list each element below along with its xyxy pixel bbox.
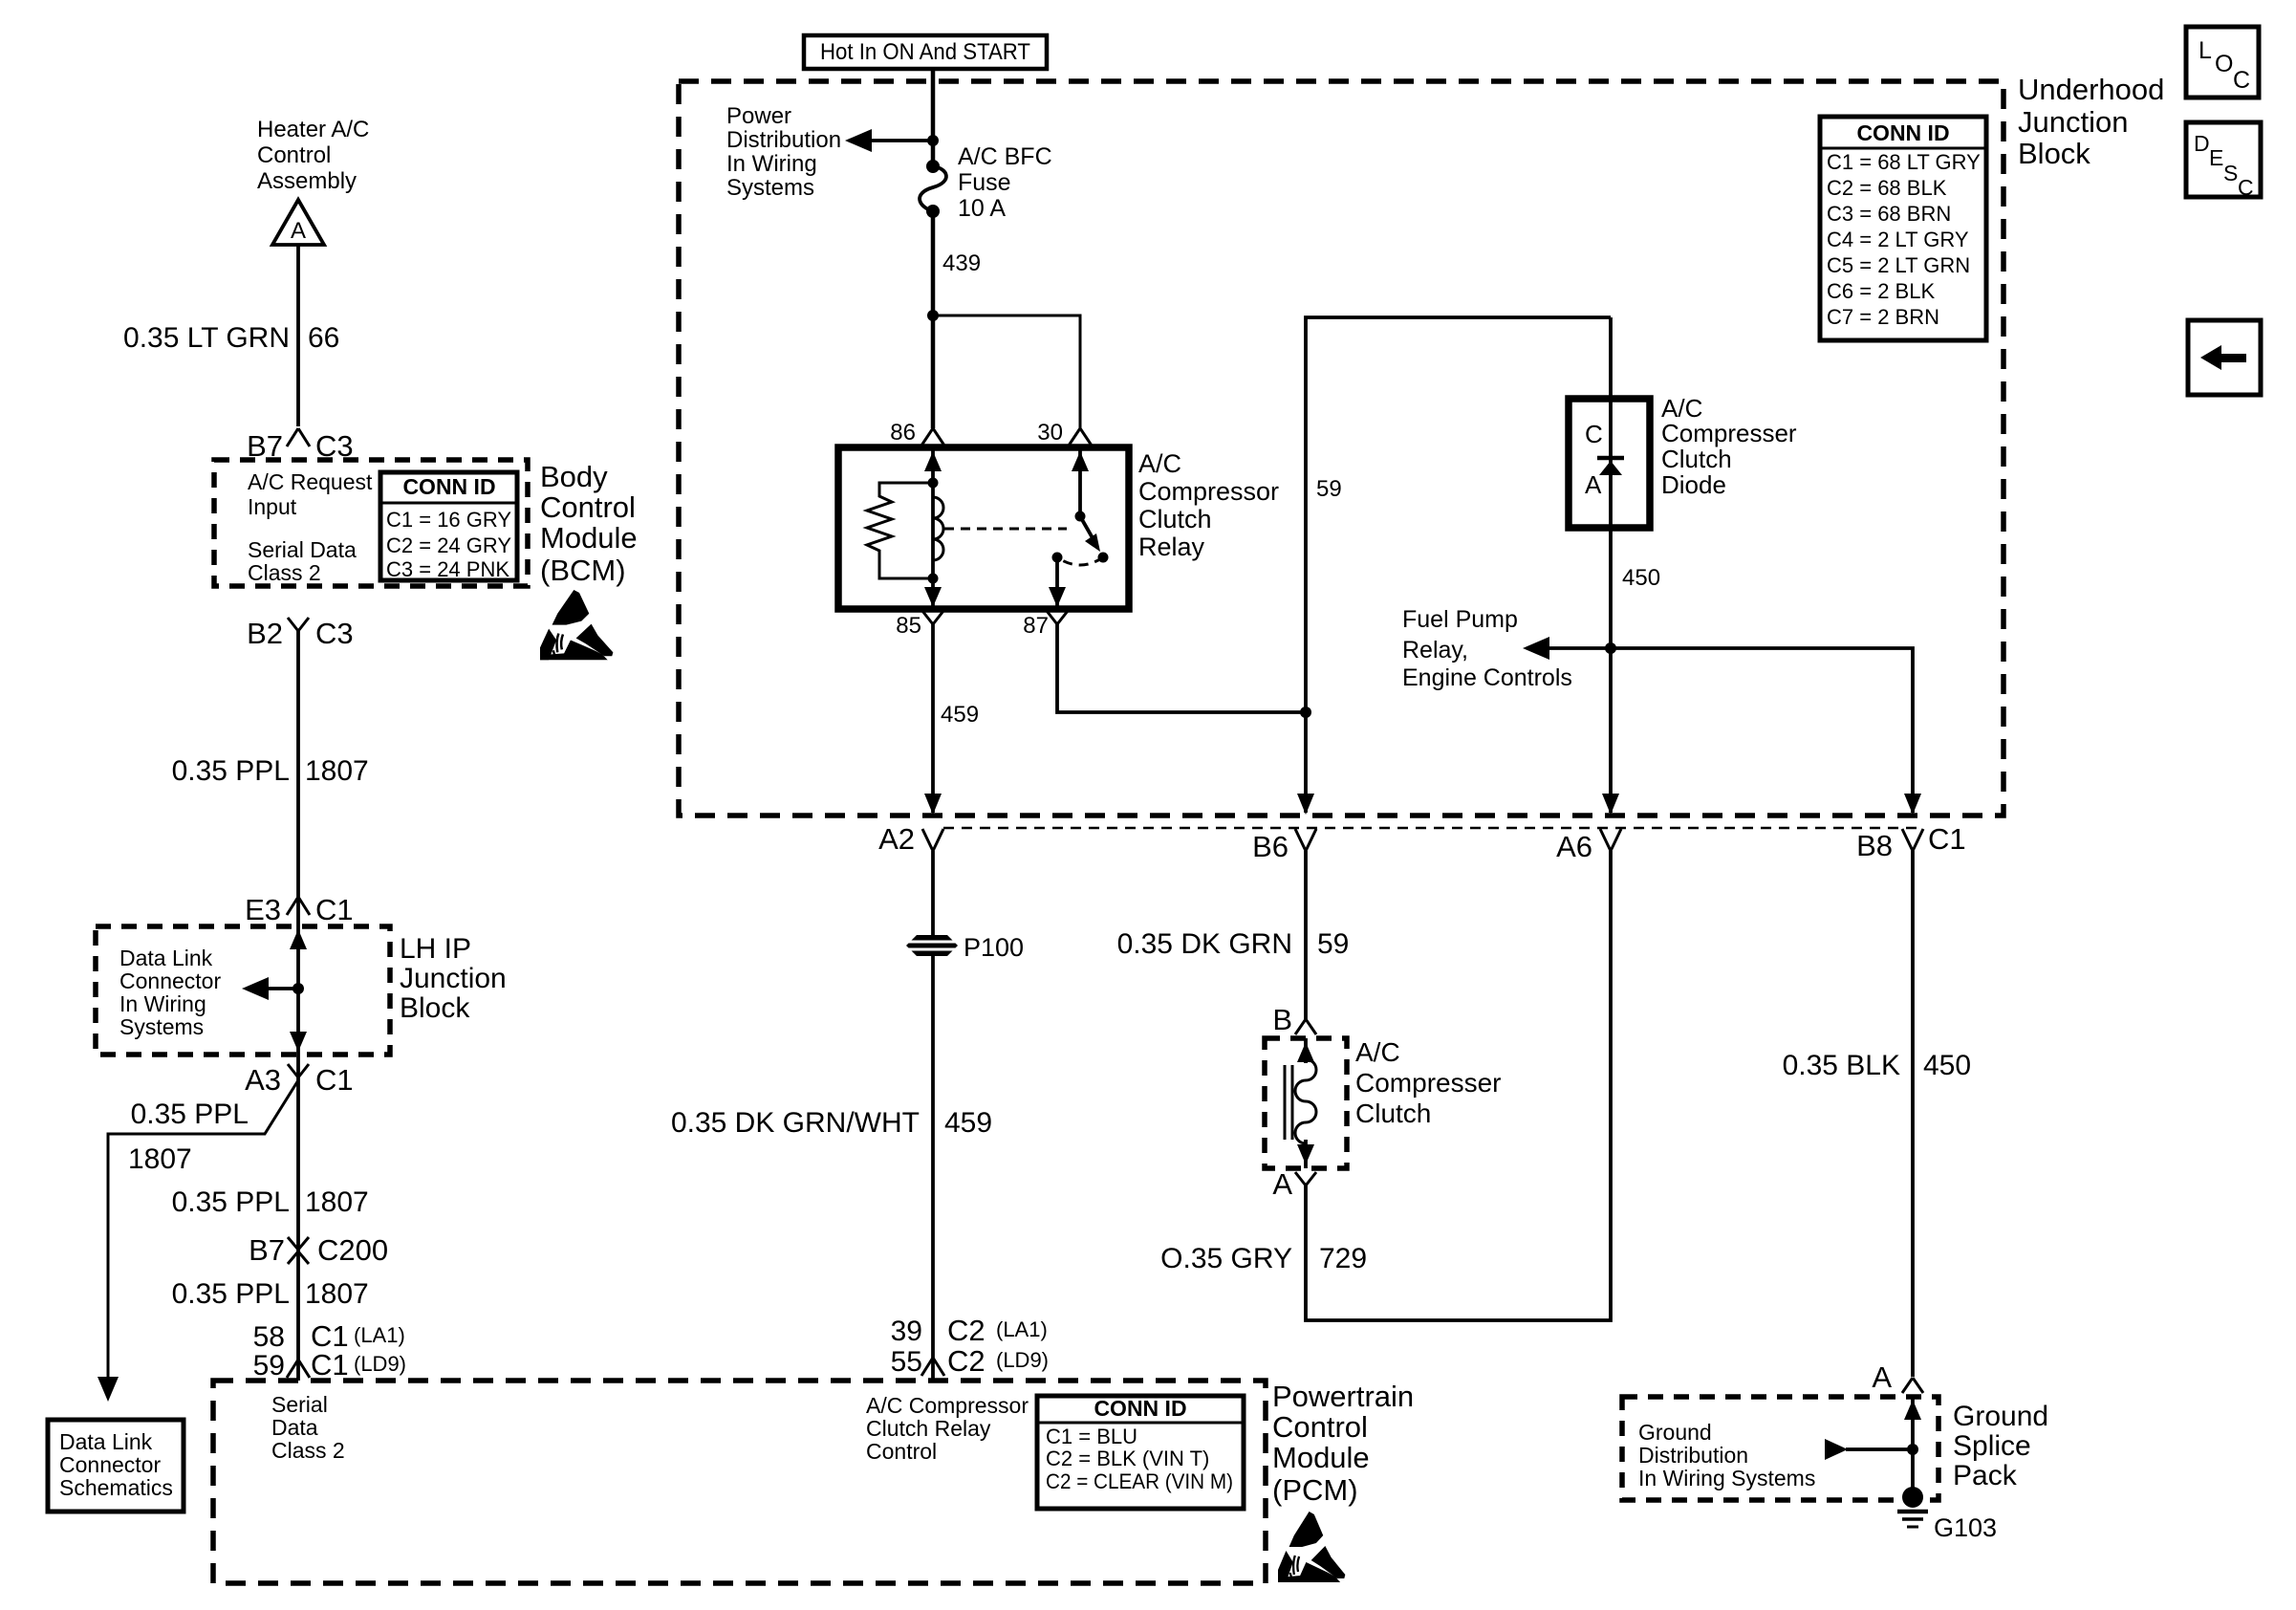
svg-text:0.35 DK GRN: 0.35 DK GRN bbox=[1117, 928, 1292, 960]
svg-text:Clutch: Clutch bbox=[1138, 505, 1212, 533]
svg-text:(PCM): (PCM) bbox=[1272, 1473, 1358, 1507]
svg-text:0.35 PPL: 0.35 PPL bbox=[172, 1278, 290, 1310]
svg-text:Systems: Systems bbox=[119, 1014, 204, 1039]
svg-text:A/C Request: A/C Request bbox=[248, 469, 373, 494]
svg-text:CONN ID: CONN ID bbox=[402, 474, 495, 499]
svg-text:Assembly: Assembly bbox=[257, 168, 357, 194]
svg-text:Clutch: Clutch bbox=[1661, 445, 1732, 473]
svg-text:C3 = 24 PNK: C3 = 24 PNK bbox=[386, 557, 509, 581]
svg-text:B7: B7 bbox=[249, 1233, 285, 1267]
svg-text:Compresser: Compresser bbox=[1661, 419, 1797, 447]
svg-text:Junction: Junction bbox=[400, 963, 507, 994]
svg-text:In Wiring: In Wiring bbox=[119, 991, 206, 1016]
svg-text:C: C bbox=[1585, 420, 1603, 448]
svg-text:Power: Power bbox=[726, 103, 791, 129]
svg-text:C3 = 68 BRN: C3 = 68 BRN bbox=[1827, 202, 1951, 226]
svg-text:Serial Data: Serial Data bbox=[248, 537, 357, 562]
svg-text:E: E bbox=[2209, 145, 2223, 170]
svg-text:A: A bbox=[291, 218, 306, 244]
svg-text:450: 450 bbox=[1923, 1050, 1971, 1081]
svg-text:A: A bbox=[1585, 470, 1602, 499]
svg-text:In Wiring: In Wiring bbox=[726, 151, 817, 177]
svg-text:C6 = 2 BLK: C6 = 2 BLK bbox=[1827, 279, 1935, 303]
svg-text:C2: C2 bbox=[947, 1344, 986, 1378]
svg-text:Class 2: Class 2 bbox=[271, 1438, 345, 1463]
svg-text:G103: G103 bbox=[1934, 1513, 1997, 1542]
svg-text:A/C Compressor: A/C Compressor bbox=[866, 1393, 1029, 1418]
svg-text:Data: Data bbox=[271, 1415, 318, 1440]
svg-text:C2 = BLK (VIN T): C2 = BLK (VIN T) bbox=[1046, 1447, 1209, 1470]
svg-text:1807: 1807 bbox=[305, 1278, 369, 1310]
svg-text:B: B bbox=[1272, 1003, 1292, 1036]
svg-text:C1: C1 bbox=[315, 1063, 354, 1097]
svg-text:Input: Input bbox=[248, 494, 297, 519]
svg-text:(LD9): (LD9) bbox=[354, 1352, 406, 1376]
svg-text:D: D bbox=[2194, 131, 2210, 156]
svg-text:86: 86 bbox=[890, 420, 916, 446]
svg-text:Relay: Relay bbox=[1138, 533, 1205, 561]
svg-text:O.35 GRY: O.35 GRY bbox=[1160, 1243, 1292, 1274]
svg-text:A/C: A/C bbox=[1355, 1037, 1400, 1067]
svg-text:C1 = 68 LT GRY: C1 = 68 LT GRY bbox=[1827, 150, 1981, 174]
svg-text:C: C bbox=[2233, 67, 2250, 94]
svg-text:Relay,: Relay, bbox=[1402, 637, 1468, 664]
svg-text:450: 450 bbox=[1622, 565, 1660, 591]
svg-text:Distribution: Distribution bbox=[1638, 1443, 1748, 1468]
svg-text:Control: Control bbox=[1272, 1410, 1368, 1444]
svg-text:A3: A3 bbox=[245, 1063, 281, 1097]
svg-text:L: L bbox=[2199, 37, 2212, 64]
svg-text:Clutch Relay: Clutch Relay bbox=[866, 1416, 991, 1441]
svg-text:B8: B8 bbox=[1856, 829, 1893, 862]
svg-text:CONN ID: CONN ID bbox=[1094, 1396, 1186, 1421]
svg-text:Systems: Systems bbox=[726, 175, 814, 201]
svg-text:Schematics: Schematics bbox=[59, 1475, 173, 1500]
svg-text:Class 2: Class 2 bbox=[248, 560, 321, 585]
svg-text:Module: Module bbox=[540, 521, 638, 555]
svg-text:Fuel Pump: Fuel Pump bbox=[1402, 606, 1518, 633]
svg-text:66: 66 bbox=[308, 322, 339, 354]
svg-text:39: 39 bbox=[891, 1316, 922, 1347]
svg-text:729: 729 bbox=[1319, 1243, 1367, 1274]
svg-text:O: O bbox=[2215, 51, 2233, 77]
svg-text:Underhood: Underhood bbox=[2018, 73, 2164, 106]
svg-text:Pack: Pack bbox=[1953, 1460, 2018, 1491]
svg-text:Junction: Junction bbox=[2018, 105, 2128, 139]
svg-text:439: 439 bbox=[942, 250, 981, 276]
svg-text:59: 59 bbox=[1317, 928, 1349, 960]
svg-text:1807: 1807 bbox=[128, 1143, 192, 1175]
svg-text:Fuse: Fuse bbox=[958, 169, 1011, 196]
svg-text:Ground: Ground bbox=[1638, 1420, 1712, 1445]
svg-text:C1 = 16 GRY: C1 = 16 GRY bbox=[386, 508, 511, 532]
svg-text:59: 59 bbox=[253, 1350, 285, 1382]
svg-text:87: 87 bbox=[1023, 613, 1049, 639]
svg-text:LH IP: LH IP bbox=[400, 933, 471, 965]
svg-text:A/C: A/C bbox=[1138, 449, 1181, 478]
svg-text:0.35 PPL: 0.35 PPL bbox=[172, 755, 290, 787]
svg-text:C1: C1 bbox=[311, 1348, 349, 1382]
svg-text:Diode: Diode bbox=[1661, 470, 1726, 499]
svg-text:0.35 DK GRN/WHT: 0.35 DK GRN/WHT bbox=[671, 1107, 920, 1139]
svg-text:1807: 1807 bbox=[305, 755, 369, 787]
svg-text:C: C bbox=[2238, 175, 2254, 200]
svg-text:0.35 PPL: 0.35 PPL bbox=[131, 1099, 249, 1130]
svg-text:A2: A2 bbox=[878, 822, 915, 856]
svg-text:A/C BFC: A/C BFC bbox=[958, 143, 1052, 170]
svg-text:10 A: 10 A bbox=[958, 195, 1006, 222]
svg-text:C200: C200 bbox=[317, 1233, 388, 1267]
svg-text:Body: Body bbox=[540, 460, 608, 493]
svg-text:Connector: Connector bbox=[59, 1452, 161, 1477]
svg-text:B2: B2 bbox=[247, 617, 283, 650]
svg-text:C2 = CLEAR (VIN M): C2 = CLEAR (VIN M) bbox=[1046, 1469, 1233, 1493]
svg-text:C3: C3 bbox=[315, 617, 354, 650]
svg-text:Distribution: Distribution bbox=[726, 127, 841, 153]
svg-text:(LA1): (LA1) bbox=[354, 1323, 405, 1347]
svg-text:(BCM): (BCM) bbox=[540, 554, 626, 587]
svg-text:Hot In ON And START: Hot In ON And START bbox=[820, 39, 1030, 65]
svg-text:Heater A/C: Heater A/C bbox=[257, 117, 369, 142]
svg-text:C2: C2 bbox=[947, 1314, 986, 1347]
svg-text:Data Link: Data Link bbox=[59, 1429, 153, 1454]
svg-text:A: A bbox=[1872, 1360, 1892, 1394]
svg-text:C1: C1 bbox=[1928, 822, 1966, 856]
svg-text:Block: Block bbox=[2018, 137, 2090, 170]
svg-text:E3: E3 bbox=[245, 893, 281, 926]
svg-text:Compresser: Compresser bbox=[1355, 1068, 1501, 1098]
svg-text:30: 30 bbox=[1037, 420, 1063, 446]
svg-text:Engine Controls: Engine Controls bbox=[1402, 664, 1572, 691]
svg-text:58: 58 bbox=[253, 1321, 285, 1353]
svg-text:C5 = 2 LT GRN: C5 = 2 LT GRN bbox=[1827, 253, 1970, 277]
svg-text:Block: Block bbox=[400, 992, 470, 1024]
svg-text:A: A bbox=[1272, 1167, 1292, 1201]
svg-text:C4 = 2 LT GRY: C4 = 2 LT GRY bbox=[1827, 228, 1969, 251]
svg-text:459: 459 bbox=[941, 702, 979, 728]
svg-text:0.35 LT GRN: 0.35 LT GRN bbox=[123, 322, 290, 354]
svg-text:Serial: Serial bbox=[271, 1392, 328, 1417]
svg-text:Data Link: Data Link bbox=[119, 946, 213, 970]
svg-text:Splice: Splice bbox=[1953, 1430, 2031, 1462]
svg-text:Clutch: Clutch bbox=[1355, 1099, 1431, 1128]
svg-text:C2 = 68 BLK: C2 = 68 BLK bbox=[1827, 176, 1947, 200]
svg-text:Connector: Connector bbox=[119, 968, 221, 993]
svg-text:59: 59 bbox=[1316, 476, 1342, 502]
svg-text:A6: A6 bbox=[1556, 830, 1592, 863]
svg-text:C1: C1 bbox=[315, 893, 354, 926]
svg-text:1807: 1807 bbox=[305, 1186, 369, 1218]
svg-text:C7 = 2 BRN: C7 = 2 BRN bbox=[1827, 305, 1939, 329]
svg-text:0.35 BLK: 0.35 BLK bbox=[1783, 1050, 1900, 1081]
svg-text:(LA1): (LA1) bbox=[996, 1317, 1048, 1341]
svg-text:Ground: Ground bbox=[1953, 1401, 2048, 1432]
svg-text:0.35 PPL: 0.35 PPL bbox=[172, 1186, 290, 1218]
svg-text:Compressor: Compressor bbox=[1138, 477, 1279, 506]
svg-text:C1 = BLU: C1 = BLU bbox=[1046, 1425, 1137, 1448]
svg-text:P100: P100 bbox=[964, 933, 1024, 962]
svg-text:(LD9): (LD9) bbox=[996, 1348, 1049, 1372]
svg-text:Control: Control bbox=[540, 490, 636, 524]
svg-text:S: S bbox=[2223, 161, 2238, 185]
svg-text:In Wiring Systems: In Wiring Systems bbox=[1638, 1466, 1815, 1490]
svg-text:C2 = 24 GRY: C2 = 24 GRY bbox=[386, 533, 511, 557]
svg-text:Powertrain: Powertrain bbox=[1272, 1380, 1414, 1413]
svg-text:B6: B6 bbox=[1252, 830, 1289, 863]
svg-text:55: 55 bbox=[891, 1346, 922, 1378]
svg-text:Control: Control bbox=[257, 142, 331, 168]
svg-text:Module: Module bbox=[1272, 1441, 1370, 1474]
svg-text:459: 459 bbox=[944, 1107, 992, 1139]
svg-text:CONN ID: CONN ID bbox=[1856, 120, 1949, 145]
svg-text:85: 85 bbox=[896, 613, 921, 639]
svg-text:Control: Control bbox=[866, 1439, 937, 1464]
